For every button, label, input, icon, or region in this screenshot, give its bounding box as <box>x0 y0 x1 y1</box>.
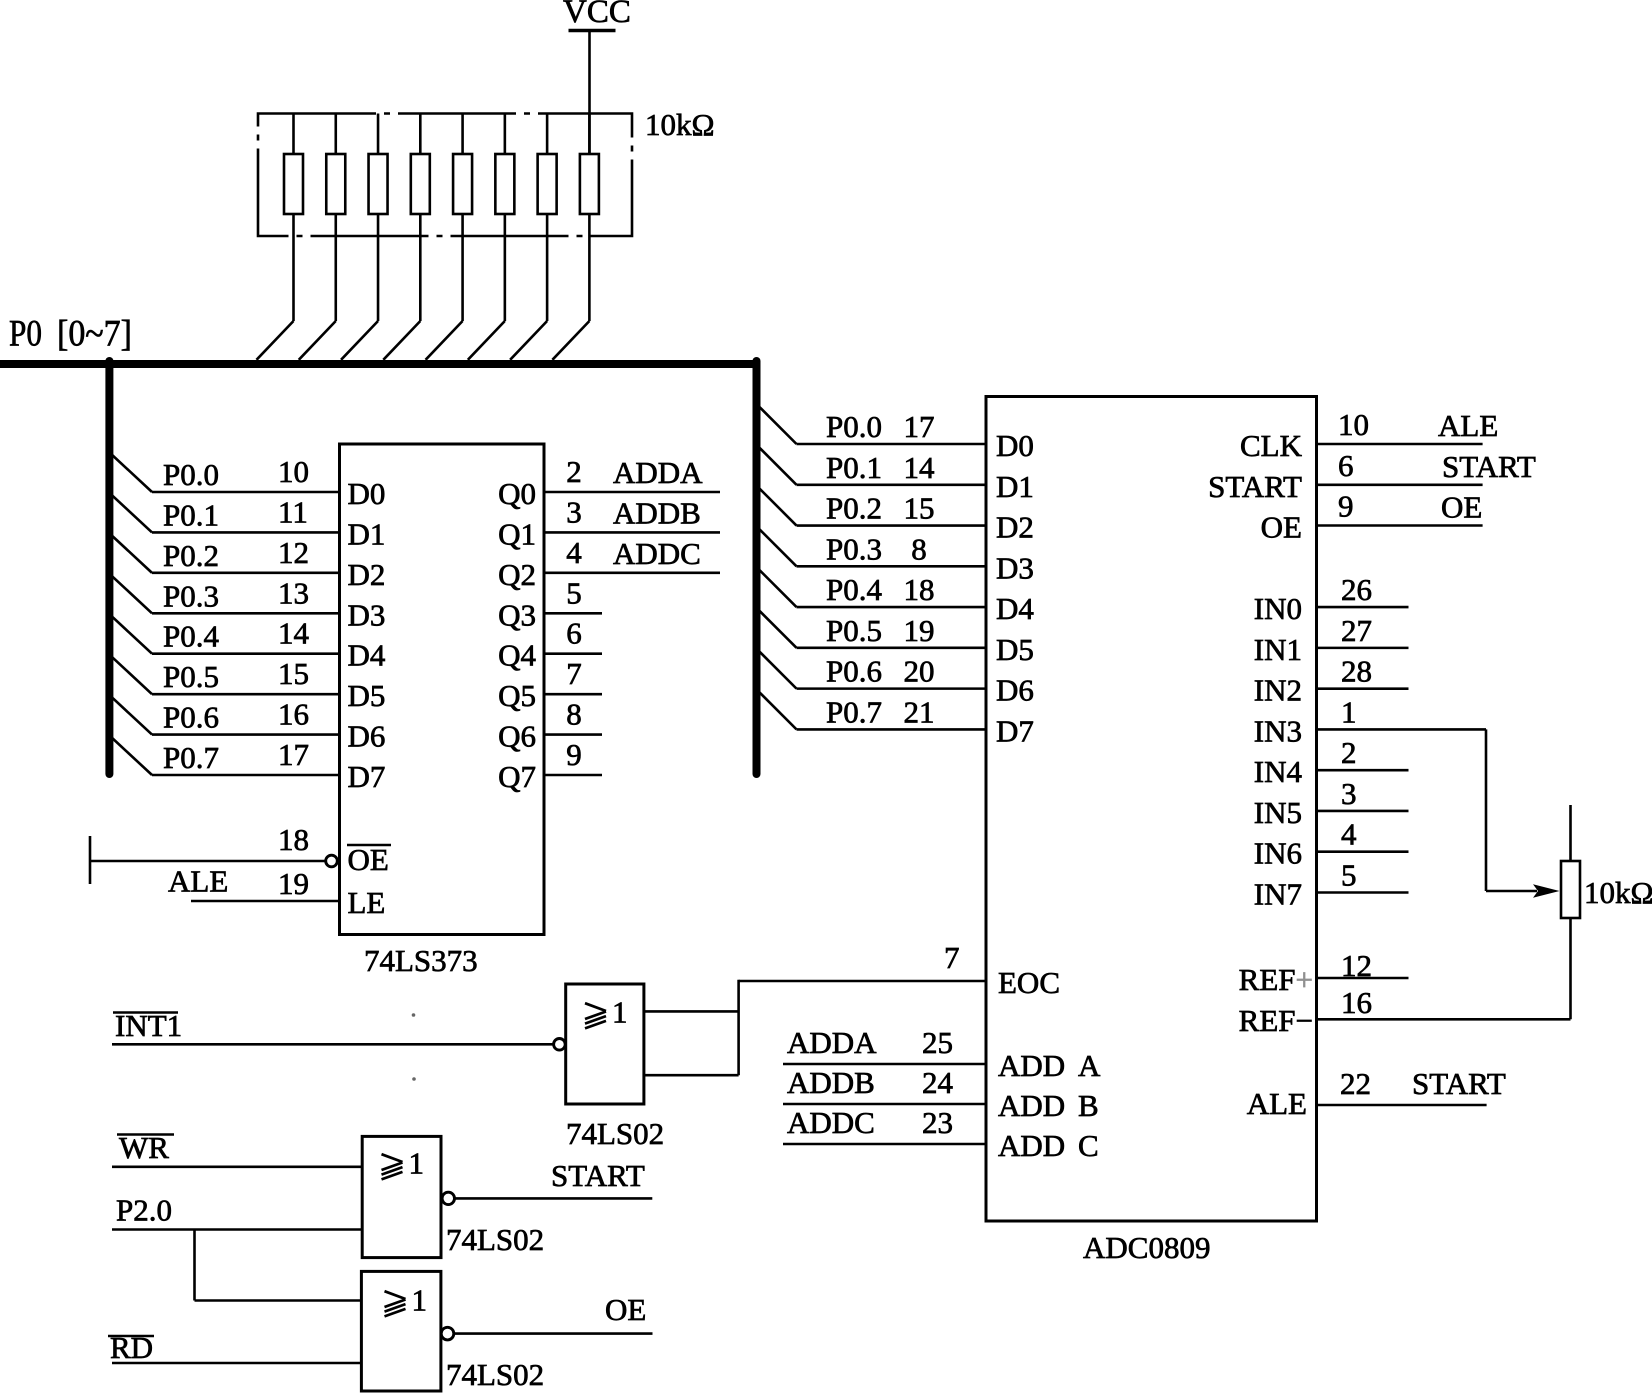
svg-text:ADDB: ADDB <box>613 495 701 530</box>
svg-text:P0.0: P0.0 <box>826 409 882 444</box>
svg-text:P0: P0 <box>9 314 42 355</box>
svg-text:8: 8 <box>566 697 582 732</box>
svg-text:27: 27 <box>1341 613 1372 648</box>
svg-text:P0.5: P0.5 <box>826 613 882 648</box>
svg-text:D6: D6 <box>996 673 1034 708</box>
svg-text:9: 9 <box>566 737 582 772</box>
svg-text:P0.1: P0.1 <box>163 497 219 532</box>
svg-text:P0.4: P0.4 <box>826 572 882 607</box>
svg-text:7: 7 <box>944 940 960 975</box>
svg-text:17: 17 <box>278 737 309 772</box>
svg-text:1: 1 <box>409 1146 425 1181</box>
svg-text:D7: D7 <box>348 759 386 794</box>
svg-text:Q7: Q7 <box>498 759 536 794</box>
svg-text:P0.7: P0.7 <box>163 740 219 775</box>
svg-text:Q5: Q5 <box>498 678 536 713</box>
svg-text:16: 16 <box>278 697 309 732</box>
svg-text:D1: D1 <box>348 516 386 551</box>
svg-text:ALE: ALE <box>1438 408 1498 443</box>
svg-text:D3: D3 <box>348 597 386 632</box>
svg-text:28: 28 <box>1341 654 1372 689</box>
svg-text:74LS02: 74LS02 <box>566 1116 664 1151</box>
svg-text:REF+: REF+ <box>1239 962 1313 997</box>
svg-text:ADC0809: ADC0809 <box>1083 1230 1210 1265</box>
svg-text:2: 2 <box>566 454 582 489</box>
svg-text:D4: D4 <box>996 591 1034 626</box>
svg-text:P0.2: P0.2 <box>826 491 882 526</box>
svg-text:74LS373: 74LS373 <box>364 943 478 978</box>
svg-text:14: 14 <box>904 450 936 485</box>
svg-text:1: 1 <box>612 995 628 1030</box>
svg-text:15: 15 <box>278 656 309 691</box>
svg-text:ALE: ALE <box>1247 1086 1307 1121</box>
svg-text:17: 17 <box>904 409 935 444</box>
svg-text:D2: D2 <box>348 557 386 592</box>
svg-text:P0.2: P0.2 <box>163 538 219 573</box>
svg-text:Q4: Q4 <box>498 638 536 673</box>
svg-text:18: 18 <box>278 822 309 857</box>
svg-text:P0.3: P0.3 <box>163 578 219 613</box>
svg-text:24: 24 <box>922 1065 954 1100</box>
svg-text:14: 14 <box>278 616 310 651</box>
svg-text:13: 13 <box>278 575 309 610</box>
svg-text:2: 2 <box>1341 735 1357 770</box>
svg-text:START: START <box>1208 469 1302 504</box>
svg-text:D0: D0 <box>996 428 1034 463</box>
svg-text:D2: D2 <box>996 510 1034 545</box>
svg-text:D3: D3 <box>996 550 1034 585</box>
svg-text:OE: OE <box>605 1292 646 1327</box>
svg-text:ADD: ADD <box>998 1088 1065 1123</box>
svg-text:10kΩ: 10kΩ <box>1584 875 1652 910</box>
svg-text:A: A <box>1078 1048 1101 1083</box>
svg-text:1: 1 <box>1341 694 1357 729</box>
svg-text:Q0: Q0 <box>498 476 536 511</box>
svg-text:P0.0: P0.0 <box>163 457 219 492</box>
svg-text:IN5: IN5 <box>1254 795 1302 830</box>
svg-text:ADDB: ADDB <box>787 1065 875 1100</box>
svg-text:IN1: IN1 <box>1254 632 1302 667</box>
svg-text:11: 11 <box>278 494 308 529</box>
svg-text:Q6: Q6 <box>498 719 536 754</box>
svg-text:START: START <box>551 1158 645 1193</box>
svg-text:C: C <box>1078 1128 1099 1163</box>
svg-text:7: 7 <box>566 656 582 691</box>
svg-text:[0~7]: [0~7] <box>57 314 132 355</box>
svg-text:EOC: EOC <box>998 965 1060 1000</box>
svg-text:4: 4 <box>566 535 582 570</box>
svg-text:12: 12 <box>1341 948 1372 983</box>
svg-text:START: START <box>1412 1066 1506 1101</box>
svg-text:12: 12 <box>278 535 309 570</box>
svg-text:ADD: ADD <box>998 1048 1065 1083</box>
svg-text:D0: D0 <box>348 476 386 511</box>
svg-text:5: 5 <box>566 575 582 610</box>
svg-text:20: 20 <box>904 654 935 689</box>
svg-text:VCC: VCC <box>563 0 631 30</box>
svg-text:LE: LE <box>348 885 386 920</box>
svg-text:16: 16 <box>1341 985 1372 1020</box>
svg-text:Q1: Q1 <box>498 516 536 551</box>
svg-text:15: 15 <box>904 491 935 526</box>
svg-text:10: 10 <box>1338 407 1369 442</box>
svg-text:IN6: IN6 <box>1254 836 1302 871</box>
svg-text:10kΩ: 10kΩ <box>645 107 715 142</box>
svg-text:D6: D6 <box>348 719 386 754</box>
svg-text:OE: OE <box>1441 490 1482 525</box>
svg-text:IN7: IN7 <box>1254 876 1302 911</box>
svg-text:22: 22 <box>1340 1066 1371 1101</box>
svg-text:ADD: ADD <box>998 1128 1065 1163</box>
svg-text:REF−: REF− <box>1239 1003 1313 1038</box>
svg-text:D5: D5 <box>996 632 1034 667</box>
svg-text:ADDC: ADDC <box>613 536 701 571</box>
svg-text:ADDC: ADDC <box>787 1105 875 1140</box>
svg-text:9: 9 <box>1338 489 1354 524</box>
svg-text:4: 4 <box>1341 817 1357 852</box>
svg-text:ADDA: ADDA <box>613 455 703 490</box>
svg-text:Q3: Q3 <box>498 597 536 632</box>
svg-text:IN0: IN0 <box>1254 591 1302 626</box>
svg-text:P0.7: P0.7 <box>826 694 882 729</box>
svg-text:10: 10 <box>278 454 309 489</box>
svg-text:B: B <box>1078 1088 1099 1123</box>
svg-text:1: 1 <box>412 1283 428 1318</box>
svg-text:OE: OE <box>348 842 389 877</box>
svg-text:P0.4: P0.4 <box>163 619 219 654</box>
svg-text:OE: OE <box>1261 510 1302 545</box>
svg-text:IN2: IN2 <box>1254 673 1302 708</box>
svg-text:74LS02: 74LS02 <box>446 1357 544 1392</box>
svg-text:P0.1: P0.1 <box>826 450 882 485</box>
svg-text:19: 19 <box>278 866 309 901</box>
svg-text:START: START <box>1442 449 1536 484</box>
svg-text:3: 3 <box>1341 776 1357 811</box>
svg-text:CLK: CLK <box>1240 428 1303 463</box>
svg-text:P0.6: P0.6 <box>163 700 219 735</box>
svg-text:5: 5 <box>1341 857 1357 892</box>
svg-text:D7: D7 <box>996 713 1034 748</box>
svg-text:P2.0: P2.0 <box>116 1193 172 1228</box>
svg-text:Q2: Q2 <box>498 557 536 592</box>
svg-text:19: 19 <box>904 613 935 648</box>
svg-text:ADDA: ADDA <box>787 1025 877 1060</box>
svg-text:8: 8 <box>911 531 927 566</box>
svg-text:P0.3: P0.3 <box>826 531 882 566</box>
svg-text:IN4: IN4 <box>1254 754 1303 789</box>
svg-text:23: 23 <box>922 1105 953 1140</box>
svg-text:21: 21 <box>904 694 935 729</box>
svg-text:3: 3 <box>566 494 582 529</box>
svg-text:P0.5: P0.5 <box>163 659 219 694</box>
svg-text:IN3: IN3 <box>1254 713 1302 748</box>
svg-text:26: 26 <box>1341 572 1372 607</box>
svg-text:ALE: ALE <box>168 864 228 899</box>
svg-text:6: 6 <box>1338 448 1354 483</box>
svg-text:18: 18 <box>904 572 935 607</box>
svg-text:D5: D5 <box>348 678 386 713</box>
svg-text:6: 6 <box>566 616 582 651</box>
svg-text:D4: D4 <box>348 638 386 673</box>
svg-text:25: 25 <box>922 1025 953 1060</box>
svg-text:D1: D1 <box>996 469 1034 504</box>
svg-text:P0.6: P0.6 <box>826 654 882 689</box>
svg-text:74LS02: 74LS02 <box>446 1222 544 1257</box>
